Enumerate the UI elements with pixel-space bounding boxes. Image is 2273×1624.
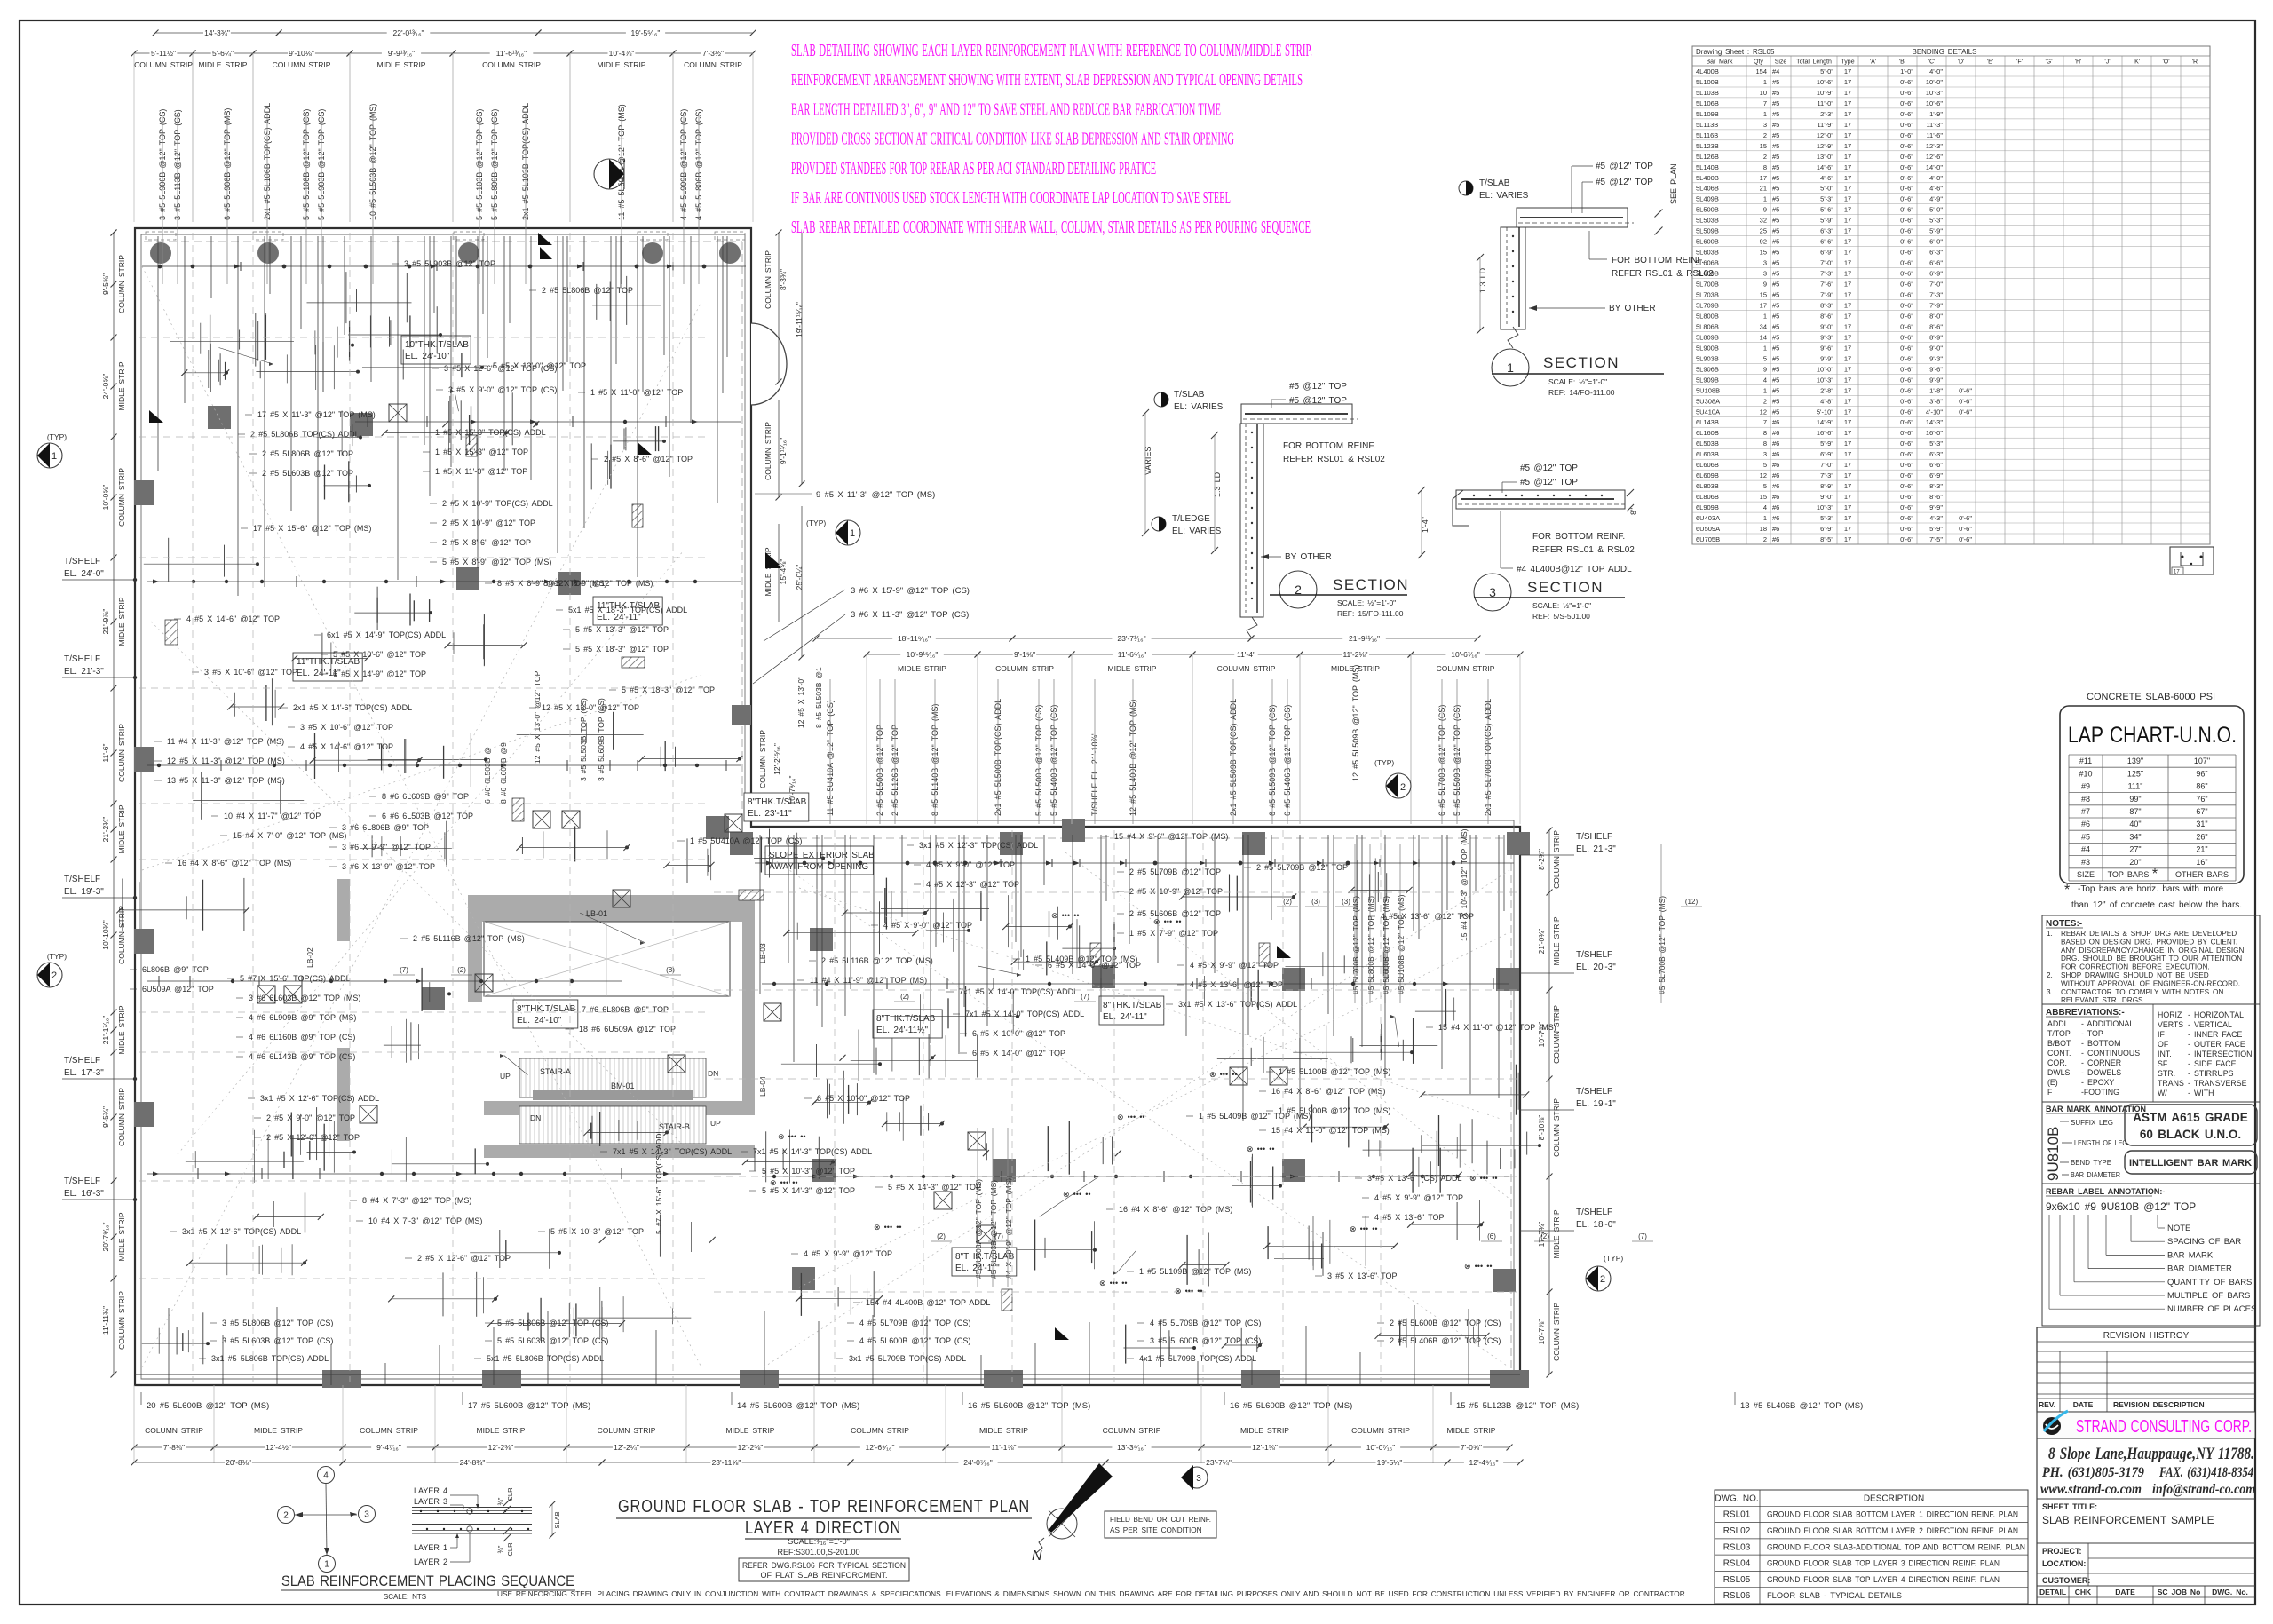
svg-text:5L406B: 5L406B [1696,185,1719,193]
svg-text:#5 @12" TOP: #5 @12" TOP [1520,478,1578,487]
svg-text:5'-3": 5'-3" [1929,217,1943,225]
svg-text:1: 1 [1763,386,1767,394]
svg-text:4'-6": 4'-6" [1929,185,1943,193]
svg-text:⊗ ••• ••: ⊗ ••• •• [874,1223,902,1232]
svg-text:8"THK.T/SLAB: 8"THK.T/SLAB [876,1014,936,1024]
svg-text:9'-4⁷⁄₁₆": 9'-4⁷⁄₁₆" [376,1443,401,1452]
svg-text:10'-9¹⁵⁄₁₆": 10'-9¹⁵⁄₁₆" [907,650,939,659]
svg-text:(3): (3) [1311,898,1320,906]
svg-text:COLUMN STRIP: COLUMN STRIP [1103,1426,1161,1435]
svg-text:3: 3 [1763,121,1767,129]
svg-text:- WITH: - WITH [2188,1089,2214,1097]
svg-text:0'-6": 0'-6" [1900,110,1913,118]
svg-text:QUANTITY OF BARS: QUANTITY OF BARS [2167,1278,2252,1287]
svg-text:SECTION: SECTION [1543,354,1620,371]
svg-text:15: 15 [1760,142,1767,150]
svg-text:5 #5 X 10'-3" @12" TOP: 5 #5 X 10'-3" @12" TOP [762,1167,855,1176]
svg-text:0'-6": 0'-6" [1900,450,1913,458]
svg-text:7x1 #5 X 14'-0" TOP(CS): 7x1 #5 X 14'-0" TOP(CS) ADDL [965,1010,1084,1018]
svg-text:#5: #5 [1772,121,1779,129]
svg-text:16 #4 X 8'-6" @12" TOP (: 16 #4 X 8'-6" @12" TOP (MS) [1271,1087,1385,1096]
svg-text:N: N [1032,1549,1042,1564]
svg-text:'E': 'E' [1987,59,1993,66]
svg-text:2: 2 [283,1511,289,1521]
svg-text:'C': 'C' [1928,59,1936,66]
svg-text:PH. (631)805-3179: PH. (631)805-3179 [2041,1465,2144,1480]
svg-text:SECTION: SECTION [1333,576,1409,593]
svg-text:#6: #6 [1772,461,1779,469]
svg-text:4'-9": 4'-9" [1929,195,1943,203]
svg-text:#3: #3 [2081,858,2090,867]
svg-text:8 #6 6L609B @9" TOP: 8 #6 6L609B @9" TOP [382,792,469,801]
svg-text:6'-9": 6'-9" [1929,471,1943,479]
svg-text:8'-5": 8'-5" [1820,535,1833,543]
svg-text:DESCRIPTION: DESCRIPTION [1864,1493,1924,1503]
svg-text:AWAY FROM OPENING: AWAY FROM OPENING [769,862,868,872]
svg-text:0'-6": 0'-6" [1900,333,1913,341]
svg-text:SECTION: SECTION [1527,579,1604,596]
svg-text:⊗ ••• ••: ⊗ ••• •• [778,1132,806,1141]
svg-text:10'-3": 10'-3" [1817,376,1833,384]
svg-text:Qty: Qty [1754,59,1763,66]
svg-text:6'-6": 6'-6" [1929,259,1943,267]
svg-text:15 #4 X 10'-3" @12" TOP: 15 #4 X 10'-3" @12" TOP (MS) [1460,828,1469,941]
svg-text:24'-0⁷⁄₁₆": 24'-0⁷⁄₁₆" [963,1458,992,1467]
svg-text:BAR DIAMETER: BAR DIAMETER [2167,1264,2232,1274]
svg-text:- EPOXY: - EPOXY [2081,1078,2114,1087]
svg-text:0'-6": 0'-6" [1900,174,1913,182]
svg-text:STR.: STR. [2158,1069,2175,1078]
svg-text:NOTE: NOTE [2167,1224,2190,1233]
svg-text:SC JOB No: SC JOB No [2158,1588,2201,1596]
svg-text:COLUMN STRIP: COLUMN STRIP [145,1426,203,1435]
svg-text:8'-6": 8'-6" [1929,322,1943,330]
svg-text:#5 @12" TOP: #5 @12" TOP [1289,382,1347,392]
svg-text:1: 1 [1763,514,1767,522]
svg-text:2 #5 X 12'-6" @12" TOP: 2 #5 X 12'-6" @12" TOP [266,1133,360,1142]
svg-text:17: 17 [1844,195,1851,203]
svg-text:17: 17 [1844,99,1851,107]
svg-text:SLAB: SLAB [553,1511,561,1528]
svg-text:LB-01: LB-01 [586,909,607,918]
svg-text:17: 17 [1760,302,1767,310]
svg-text:9'-5¾": 9'-5¾" [101,1106,110,1128]
svg-text:5 #5 X 8'-9" @12" TOP (M: 5 #5 X 8'-9" @12" TOP (MS) [442,558,551,566]
svg-text:7'-0": 7'-0" [1820,461,1833,469]
svg-text:OF FLAT SLAB REINFORCMENT.: OF FLAT SLAB REINFORCMENT. [761,1571,888,1580]
svg-text:2: 2 [1763,153,1767,161]
svg-text:5 #5 X 18'-3" @12" TOP: 5 #5 X 18'-3" @12" TOP [622,685,715,694]
svg-text:2 #5 X 8'-6" @12" TOP: 2 #5 X 8'-6" @12" TOP [604,455,693,463]
svg-text:EL. 24'-0": EL. 24'-0" [64,569,104,579]
svg-text:3 #5 X 9'-0" @12" TOP (C: 3 #5 X 9'-0" @12" TOP (CS) [448,385,557,394]
svg-text:NOTES:-: NOTES:- [2046,919,2082,929]
svg-text:6 #5 X 14'-0" @12" TOP: 6 #5 X 14'-0" @12" TOP [1048,961,1141,970]
svg-text:#5: #5 [1772,78,1779,86]
svg-text:MIDLE STRIP: MIDLE STRIP [598,60,646,69]
svg-text:9: 9 [1763,206,1767,214]
svg-text:5'-11½": 5'-11½" [151,49,176,58]
svg-text:7x1 #5 X 14'-3" TOP(CS): 7x1 #5 X 14'-3" TOP(CS) ADDL [753,1147,872,1156]
svg-text:16 #5 5L600B @12" TOP (MS: 16 #5 5L600B @12" TOP (MS) [968,1401,1090,1411]
svg-text:B/BOT.: B/BOT. [2047,1039,2072,1048]
svg-text:BY OTHER: BY OTHER [1285,552,1332,562]
svg-text:17: 17 [1844,525,1851,533]
svg-text:3.: 3. [2047,988,2053,996]
svg-text:Type: Type [1841,59,1854,66]
svg-text:#5: #5 [1772,227,1779,235]
svg-text:#5: #5 [1772,344,1779,352]
svg-text:5L123B: 5L123B [1696,142,1719,150]
svg-text:11'-3": 11'-3" [1926,121,1943,129]
svg-text:#6: #6 [1772,493,1779,501]
svg-text:COLUMN STRIP: COLUMN STRIP [1351,1426,1410,1435]
svg-text:4'-0": 4'-0" [1929,174,1943,182]
svg-text:T/SHELF: T/SHELF [64,654,100,664]
svg-text:15: 15 [1760,249,1767,257]
svg-text:12'-1⅜": 12'-1⅜" [1252,1443,1278,1452]
svg-text:0'-6": 0'-6" [1900,471,1913,479]
svg-text:4 #5 X 9'-0" @12" TOP: 4 #5 X 9'-0" @12" TOP [926,860,1015,869]
svg-text:COLUMN STRIP: COLUMN STRIP [851,1426,909,1435]
svg-text:4'-8": 4'-8" [1820,397,1833,405]
svg-text:EL. 17'-3": EL. 17'-3" [64,1068,104,1078]
svg-text:7'-3": 7'-3" [1820,270,1833,278]
svg-text:9'-0": 9'-0" [1820,322,1833,330]
svg-text:17: 17 [1844,89,1851,97]
svg-text:GROUND FLOOR SLAB BOTTOM L: GROUND FLOOR SLAB BOTTOM LAYER 2 DIRECTI… [1767,1526,2018,1536]
svg-text:17: 17 [1844,131,1851,139]
svg-text:DATE: DATE [2115,1588,2135,1596]
svg-text:SCALE: ½"=1'-0": SCALE: ½"=1'-0" [1337,598,1396,607]
svg-text:12 #5 X 13'-0" @12" TOP: 12 #5 X 13'-0" @12" TOP [542,703,639,712]
svg-text:6'-9": 6'-9" [1820,249,1833,257]
svg-text:6'-3": 6'-3" [1929,450,1943,458]
svg-text:CONCRETE SLAB-6000 PSI: CONCRETE SLAB-6000 PSI [2087,692,2215,702]
svg-text:34: 34 [1760,322,1767,330]
svg-text:REF:S301.00,S-201.00: REF:S301.00,S-201.00 [777,1548,859,1557]
svg-text:EL: VARIES: EL: VARIES [1479,191,1529,201]
svg-text:COLUMN STRIP: COLUMN STRIP [117,255,126,313]
svg-text:10'-9": 10'-9" [1817,89,1833,97]
svg-text:- SIDE FACE: - SIDE FACE [2188,1059,2237,1068]
svg-text:- BOTTOM: - BOTTOM [2081,1039,2120,1048]
svg-text:11'-6": 11'-6" [101,743,110,762]
svg-text:ADDL.: ADDL. [2047,1019,2071,1028]
svg-text:16 #4 X 8'-6" @12" TOP (: 16 #4 X 8'-6" @12" TOP (MS) [1119,1205,1232,1214]
svg-text:23'-7¹⁄₁₆": 23'-7¹⁄₁₆" [1117,634,1145,643]
svg-text:MIDLE STRIP: MIDLE STRIP [117,1212,126,1261]
svg-text:STRAND CONSULTING CORP.: STRAND CONSULTING CORP. [2076,1417,2252,1437]
svg-text:DN: DN [708,1069,718,1078]
svg-text:FIELD BEND OR CUT REINF.: FIELD BEND OR CUT REINF. [1110,1516,1211,1524]
svg-text:8'-0": 8'-0" [1929,313,1943,321]
svg-text:3 #5 X 13'-6" TOP: 3 #5 X 13'-6" TOP [1327,1271,1398,1280]
svg-text:DRG. SHOULD BE BROUGHT TO: DRG. SHOULD BE BROUGHT TO OUR ATTENTION [2061,955,2242,963]
svg-text:PROVIDED CROSS SECTION AT CRIT: PROVIDED CROSS SECTION AT CRITICAL CONDI… [791,130,1234,149]
svg-text:5x1 #5 X 18'-3" TOP(CS): 5x1 #5 X 18'-3" TOP(CS) ADDL [568,606,687,614]
svg-text:1: 1 [1763,344,1767,352]
svg-text:COLUMN STRIP: COLUMN STRIP [117,724,126,782]
svg-text:16 #4 X 8'-6" @12" TOP (: 16 #4 X 8'-6" @12" TOP (MS) [178,859,291,867]
svg-text:4: 4 [1763,376,1767,384]
svg-text:0'-6": 0'-6" [1900,376,1913,384]
svg-text:- INTERSECTION: - INTERSECTION [2188,1050,2252,1058]
svg-text:LB-04: LB-04 [758,1076,767,1097]
svg-text:6 #5 X 14'-9" @12" TOP: 6 #5 X 14'-9" @12" TOP [333,669,426,678]
svg-text:(TYP): (TYP) [1604,1254,1623,1263]
svg-text:17: 17 [1844,397,1851,405]
svg-text:0'-6": 0'-6" [1900,249,1913,257]
svg-text:(6): (6) [1487,1232,1496,1240]
svg-text:87": 87" [2129,807,2141,816]
svg-text:DWG. No.: DWG. No. [2212,1588,2248,1596]
svg-text:'K': 'K' [2134,59,2140,66]
svg-text:EL. 19'-3": EL. 19'-3" [64,887,104,897]
svg-text:9'-6": 9'-6" [1929,365,1943,373]
svg-text:#5: #5 [1772,206,1779,214]
svg-text:SCALE: ½"=1'-0": SCALE: ½"=1'-0" [1548,377,1607,386]
svg-text:⊗ ••• ••: ⊗ ••• •• [1153,917,1182,926]
svg-text:#5: #5 [1772,89,1779,97]
svg-text:LAYER 2: LAYER 2 [414,1557,447,1566]
svg-text:LAYER 4 DIRECTION: LAYER 4 DIRECTION [745,1518,901,1538]
svg-text:12'-2⅜": 12'-2⅜" [488,1443,514,1452]
svg-text:7'-9": 7'-9" [1929,302,1943,310]
svg-text:(8): (8) [666,966,675,974]
svg-text:#5: #5 [1772,163,1779,171]
svg-text:7: 7 [1763,99,1767,107]
svg-text:4 #5 X 12'-3" @12" TOP: 4 #5 X 12'-3" @12" TOP [926,880,1019,889]
svg-text:5L500B: 5L500B [1696,206,1719,214]
svg-text:14'-3¾": 14'-3¾" [204,28,230,37]
svg-text:5L509B: 5L509B [1696,227,1719,235]
svg-text:#5: #5 [1772,153,1779,161]
svg-text:COLUMN STRIP: COLUMN STRIP [117,1088,126,1146]
svg-text:5 #5 X 13'-3" @12" TOP: 5 #5 X 13'-3" @12" TOP [575,625,669,634]
svg-text:LOCATION:: LOCATION: [2042,1559,2086,1568]
svg-text:#5: #5 [1772,195,1779,203]
svg-text:OF: OF [2158,1040,2169,1049]
svg-text:(2): (2) [1540,1232,1549,1240]
svg-text:- TRANSVERSE: - TRANSVERSE [2188,1079,2247,1088]
svg-text:REFER RSL01 & RSL02: REFER RSL01 & RSL02 [1283,455,1385,464]
svg-text:5U308A: 5U308A [1696,397,1720,405]
svg-text:17: 17 [1844,503,1851,511]
svg-text:0'-6": 0'-6" [1900,78,1913,86]
svg-text:RSL05: RSL05 [1723,1575,1751,1585]
svg-text:COLUMN STRIP: COLUMN STRIP [117,906,126,964]
svg-text:¾": ¾" [496,1545,504,1553]
svg-text:MIDLE STRIP: MIDLE STRIP [117,361,126,410]
svg-text:#5: #5 [1772,238,1779,246]
svg-text:3 #5 5L603B @12" TOP (CS): 3 #5 5L603B @12" TOP (CS) [222,1336,333,1345]
svg-text:67": 67" [2196,807,2207,816]
svg-text:4: 4 [1763,503,1767,511]
svg-text:17: 17 [1844,418,1851,426]
svg-text:- HORIZONTAL: - HORIZONTAL [2188,1010,2244,1019]
svg-text:RSL03: RSL03 [1723,1542,1751,1552]
svg-text:5 #5 X 10'-6" @12" TOP: 5 #5 X 10'-6" @12" TOP [333,650,426,659]
svg-text:1 #5 5U410A @12" TOP (CS): 1 #5 5U410A @12" TOP (CS) [690,836,802,845]
svg-text:(12): (12) [1685,898,1699,906]
svg-text:0'-6": 0'-6" [1900,195,1913,203]
svg-text:9'-9": 9'-9" [1929,376,1943,384]
svg-text:60 BLACK U.N.O.: 60 BLACK U.N.O. [2140,1128,2241,1141]
svg-text:#6: #6 [1772,429,1779,437]
svg-text:1: 1 [850,528,855,539]
svg-text:3 #6 6L806B @9" TOP: 3 #6 6L806B @9" TOP [342,823,429,832]
svg-text:76": 76" [2196,795,2207,804]
svg-text:0'-6": 0'-6" [1900,302,1913,310]
svg-text:2: 2 [1763,535,1767,543]
svg-text:15 #4 X 11'-0" @12" TOP: 15 #4 X 11'-0" @12" TOP (MS) [1438,1023,1556,1032]
svg-text:6 #6 6L503B @: 6 #6 6L503B @ [483,747,492,804]
svg-text:0'-6": 0'-6" [1959,386,1972,394]
svg-text:5L809B: 5L809B [1696,333,1719,341]
svg-text:CLR: CLR [506,1542,514,1557]
svg-text:19'-5¼": 19'-5¼" [1377,1458,1403,1467]
svg-text:- CONTINUOUS: - CONTINUOUS [2081,1049,2140,1058]
svg-text:154 #4 4L400B @12" TOP AD: 154 #4 4L400B @12" TOP ADDL [866,1298,990,1307]
svg-text:0'-6": 0'-6" [1900,493,1913,501]
svg-text:MULTIPLE OF BARS: MULTIPLE OF BARS [2167,1291,2250,1301]
svg-text:T/SHELF: T/SHELF [64,875,100,884]
svg-text:4L400B: 4L400B [1696,67,1719,75]
svg-text:GROUND FLOOR SLAB TOP LAYE: GROUND FLOOR SLAB TOP LAYER 3 DIRECTION … [1767,1559,2000,1569]
svg-text:COR.: COR. [2047,1058,2067,1067]
svg-text:MIDLE STRIP: MIDLE STRIP [979,1426,1028,1435]
svg-text:5L113B: 5L113B [1696,121,1718,129]
svg-text:9'-3": 9'-3" [1929,354,1943,362]
svg-text:4 #5 5L709B @12" TOP (CS): 4 #5 5L709B @12" TOP (CS) [859,1319,970,1327]
svg-text:7'-8⅛": 7'-8⅛" [163,1443,185,1452]
svg-text:17: 17 [1844,386,1851,394]
svg-text:0'-6": 0'-6" [1900,408,1913,416]
svg-text:Drawing Sheet : RSL05: Drawing Sheet : RSL05 [1696,48,1775,56]
svg-text:3 #5 X 10'-6" @12" TOP: 3 #5 X 10'-6" @12" TOP [204,668,297,677]
svg-text:IF BAR ARE CONTINOUS USED STOC: IF BAR ARE CONTINOUS USED STOCK LENGTH W… [791,188,1231,208]
svg-text:SLAB DETAILING SHOWING EACH LA: SLAB DETAILING SHOWING EACH LAYER REINFO… [791,41,1312,60]
svg-text:8 #4 X 7'-3" @12" TOP (M: 8 #4 X 7'-3" @12" TOP (MS) [362,1196,471,1205]
svg-text:7'-0": 7'-0" [1929,281,1943,289]
svg-text:'G': 'G' [2045,59,2052,66]
svg-text:20 #5 5L600B @12" TOP (MS: 20 #5 5L600B @12" TOP (MS) [147,1401,269,1411]
svg-text:16": 16" [2196,858,2207,867]
svg-text:RELEVANT STR. DRGS.: RELEVANT STR. DRGS. [2061,996,2145,1004]
svg-text:(7): (7) [994,1232,1003,1240]
svg-text:HORIZ: HORIZ [2158,1010,2182,1019]
svg-text:8 #5 X 8'-9" @12" TOP (M: 8 #5 X 8'-9" @12" TOP (MS) [497,579,606,588]
svg-text:#5: #5 [1772,408,1779,416]
svg-text:COLUMN STRIP: COLUMN STRIP [1552,1098,1561,1157]
svg-text:1'-9": 1'-9" [1929,110,1943,118]
svg-text:17: 17 [1844,153,1851,161]
svg-text:12'-0": 12'-0" [1817,131,1833,139]
svg-text:MIDLE STRIP: MIDLE STRIP [1552,916,1561,965]
svg-text:8": 8" [1629,508,1638,515]
svg-text:0'-6": 0'-6" [1900,281,1913,289]
svg-text:0'-6": 0'-6" [1900,344,1913,352]
svg-text:FOR BOTTOM REINF.: FOR BOTTOM REINF. [1283,441,1375,451]
svg-text:SEE PLAN: SEE PLAN [1669,163,1678,204]
svg-text:ABBREVIATIONS:-: ABBREVIATIONS:- [2046,1008,2125,1018]
svg-text:5L709B: 5L709B [1696,302,1719,310]
svg-text:14: 14 [1760,333,1767,341]
svg-text:1.3 LD: 1.3 LD [1478,267,1487,293]
svg-text:9'-3": 9'-3" [1820,333,1833,341]
svg-text:MIDLE STRIP: MIDLE STRIP [117,804,126,853]
svg-text:MIDLE STRIP: MIDLE STRIP [1552,1209,1561,1258]
svg-text:⊗ ••• ••: ⊗ ••• •• [1350,1224,1378,1233]
svg-text:SLAB REINFORCEMENT SAMPLE: SLAB REINFORCEMENT SAMPLE [2042,1514,2214,1526]
svg-text:#4: #4 [2081,845,2090,854]
svg-text:- CORNER: - CORNER [2081,1058,2121,1067]
svg-text:LENGTH OF LEG: LENGTH OF LEG [2074,1138,2127,1147]
svg-text:TOP BARS: TOP BARS [2108,870,2150,879]
svg-text:#5: #5 [1772,110,1779,118]
svg-text:18'-11⁹⁄₁₆": 18'-11⁹⁄₁₆" [898,634,931,643]
svg-text:5U410A: 5U410A [1696,408,1720,416]
svg-text:17: 17 [1844,163,1851,171]
svg-text:7: 7 [1763,418,1767,426]
svg-text:10'-0⁷⁄₁₆": 10'-0⁷⁄₁₆" [1366,1443,1395,1452]
svg-text:8'-9": 8'-9" [1820,482,1833,490]
svg-text:#6: #6 [1772,514,1779,522]
svg-text:0'-6": 0'-6" [1900,238,1913,246]
svg-text:6L160B: 6L160B [1696,429,1719,437]
svg-text:0'-6": 0'-6" [1900,217,1913,225]
svg-text:#5: #5 [1772,217,1779,225]
svg-text:9'-5⅝": 9'-5⅝" [101,273,110,295]
svg-text:96": 96" [2196,769,2207,778]
svg-text:- VERTICAL: - VERTICAL [2188,1020,2232,1029]
svg-text:BAR DIAMETER: BAR DIAMETER [2071,1170,2120,1179]
svg-text:1: 1 [1763,78,1767,86]
svg-text:VARIES: VARIES [1144,447,1152,475]
svg-text:LAYER 1: LAYER 1 [414,1543,447,1552]
svg-text:#5: #5 [1772,281,1779,289]
svg-text:- ADDITIONAL: - ADDITIONAL [2081,1019,2134,1028]
svg-text:34": 34" [2129,832,2141,841]
svg-text:5L100B: 5L100B [1696,78,1719,86]
svg-text:4 #5 X 13'-6" @12" TOP: 4 #5 X 13'-6" @12" TOP [1381,912,1474,921]
svg-text:3 #5 5L600B @12" TOP (CS): 3 #5 5L600B @12" TOP (CS) [1150,1336,1261,1345]
svg-text:5L909B: 5L909B [1696,376,1719,384]
svg-text:WITHOUT APPROVAL OF ENGINEE: WITHOUT APPROVAL OF ENGINEER-ON-RECORD. [2061,979,2240,987]
svg-text:13'-0": 13'-0" [1817,153,1833,161]
svg-text:25: 25 [1760,227,1767,235]
svg-text:2'-3": 2'-3" [1820,110,1833,118]
svg-text:5L126B: 5L126B [1696,153,1719,161]
svg-text:17: 17 [1844,344,1851,352]
svg-text:REVISION HISTROY: REVISION HISTROY [2103,1331,2190,1341]
svg-text:3: 3 [364,1510,369,1520]
svg-text:#5: #5 [1772,142,1779,150]
svg-text:6L143B: 6L143B [1696,418,1719,426]
svg-text:ANY DISCREPANCY/CHANGE IN O: ANY DISCREPANCY/CHANGE IN ORIGINAL DESIG… [2061,947,2245,955]
svg-text:REFER RSL01 & RSL02: REFER RSL01 & RSL02 [1612,269,1714,279]
svg-text:- OUTER FACE: - OUTER FACE [2188,1040,2245,1049]
svg-text:⊗ ••• ••: ⊗ ••• •• [1464,1262,1493,1271]
svg-text:11 #4 X 11'-3" @12" TOP: 11 #4 X 11'-3" @12" TOP (MS) [167,737,284,746]
svg-text:W/: W/ [2158,1089,2167,1097]
svg-text:4 #5 X 13'-6" TOP: 4 #5 X 13'-6" TOP [1374,1213,1445,1222]
svg-text:EL. 20'-3": EL. 20'-3" [1576,963,1616,972]
svg-text:14'-9": 14'-9" [1817,418,1833,426]
svg-text:0'-6": 0'-6" [1900,206,1913,214]
svg-text:1: 1 [1763,313,1767,321]
